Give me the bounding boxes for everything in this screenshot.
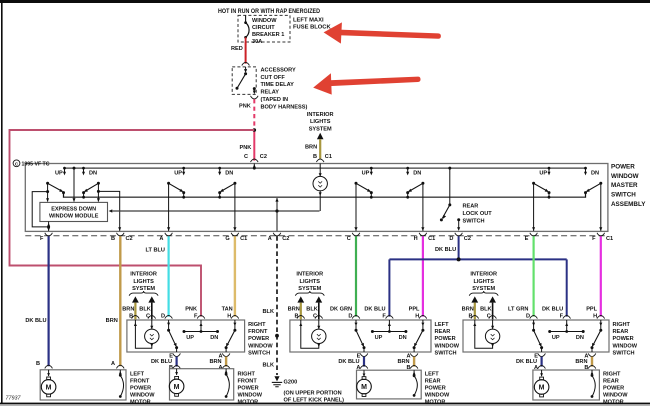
svg-text:F: F <box>560 314 564 320</box>
svg-text:MOTOR: MOTOR <box>603 399 624 405</box>
svg-text:PNK: PNK <box>185 306 197 312</box>
wire DK GRN pin C to left rear switch pin D <box>355 236 357 316</box>
svg-text:EXPRESS DOWN: EXPRESS DOWN <box>51 207 96 213</box>
svg-text:POWER: POWER <box>130 385 151 391</box>
svg-text:D: D <box>526 314 530 320</box>
switch illumination lamp <box>300 320 302 326</box>
svg-text:ASSEMBLY: ASSEMBLY <box>611 201 646 208</box>
svg-text:WINDOW: WINDOW <box>435 343 460 349</box>
fuse block dashed box <box>238 15 290 42</box>
svg-text:WINDOW MODULE: WINDOW MODULE <box>49 214 99 220</box>
switch output pin E to motor (DK BLU) <box>173 353 181 356</box>
svg-text:WINDOW: WINDOW <box>425 392 450 398</box>
svg-text:MOTOR: MOTOR <box>238 399 259 405</box>
master switch bottom pin F C1 <box>597 233 605 236</box>
switch 3 left arm <box>355 182 358 185</box>
ground bus wire inside master switch <box>64 192 586 197</box>
svg-text:SYSTEM: SYSTEM <box>309 126 332 132</box>
svg-text:A: A <box>159 236 163 242</box>
svg-text:LEFT: LEFT <box>435 322 450 328</box>
motor return path arc <box>413 370 415 375</box>
svg-text:DK BLU: DK BLU <box>25 318 46 324</box>
motor return path arc <box>225 369 227 374</box>
svg-text:WINDOW: WINDOW <box>238 392 263 398</box>
svg-text:CIRCUIT: CIRCUIT <box>252 25 275 31</box>
svg-text:WINDOW: WINDOW <box>603 392 628 398</box>
svg-text:MOTOR: MOTOR <box>425 399 446 405</box>
svg-text:M: M <box>539 385 545 392</box>
master switch bottom pin A C2 <box>273 233 281 236</box>
svg-text:LIGHTS: LIGHTS <box>473 279 494 285</box>
svg-text:1995 VF TC: 1995 VF TC <box>22 162 50 168</box>
switch 2 left pivot wire to pin A <box>168 183 170 231</box>
svg-text:A: A <box>111 361 115 367</box>
accessory cut off time delay relay dashed box <box>232 67 256 95</box>
svg-text:BREAKER 1: BREAKER 1 <box>252 32 284 38</box>
svg-text:BRN: BRN <box>122 306 134 312</box>
svg-text:LOCK OUT: LOCK OUT <box>463 211 493 217</box>
svg-text:INTERIOR: INTERIOR <box>130 272 157 278</box>
svg-text:DN: DN <box>89 171 97 177</box>
wire DK BLU drop to right rear switch pin F <box>566 259 568 316</box>
svg-text:C1: C1 <box>428 236 435 242</box>
arrow to interior lights system (BRN B C1) <box>317 133 324 139</box>
svg-text:C2: C2 <box>464 236 471 242</box>
svg-text:WINDOW: WINDOW <box>613 343 638 349</box>
switch 1 left arm <box>46 182 49 185</box>
switch output pin E to motor (DK BLU) <box>538 353 546 356</box>
pin A C2 ground riser <box>276 198 278 231</box>
svg-text:H: H <box>227 314 231 320</box>
wire BRN pin B C2 to left front motor <box>119 236 121 366</box>
svg-text:DN: DN <box>591 171 599 177</box>
wire PNK junction to master switch pin C C2 <box>253 130 255 161</box>
svg-text:RIGHT: RIGHT <box>248 322 266 328</box>
splice junction on PNK feed <box>253 128 257 132</box>
motor symbol <box>541 370 543 376</box>
master switch: left rear window switch UP contact <box>370 168 372 173</box>
svg-text:BODY HARNESS): BODY HARNESS) <box>261 104 308 110</box>
motor symbol <box>48 370 50 376</box>
switch illumination lamp <box>474 320 476 326</box>
svg-text:M: M <box>174 384 180 391</box>
wire PPL pin F C1 to right rear switch pin H <box>600 236 602 316</box>
svg-text:B: B <box>111 236 115 242</box>
switch left arm (to motor) <box>355 320 357 330</box>
svg-text:WINDOW: WINDOW <box>611 173 639 180</box>
lamp ground drop to module sense line <box>319 191 321 211</box>
switch feed and UP/DN contacts <box>566 320 568 332</box>
svg-text:WINDOW: WINDOW <box>252 18 277 24</box>
right rear power window switch box <box>463 320 609 352</box>
copyright 1995 VF TC <box>13 160 20 167</box>
ground G200 symbol <box>274 376 279 381</box>
master switch: right rear window switch UP contact <box>548 168 550 173</box>
wire LT BLU pin A to right front switch pin D <box>168 236 170 316</box>
master switch: right rear window switch DN contact <box>585 168 587 173</box>
svg-text:C: C <box>244 154 248 160</box>
switch 3 right arm <box>421 182 424 185</box>
wire PNK feed run to right front switch (left loop) <box>10 130 255 317</box>
switch left arm (to motor) <box>168 320 170 330</box>
svg-text:H: H <box>415 314 419 320</box>
master switch: left rear window switch DN contact <box>407 168 409 173</box>
red arrow pointer 2 <box>313 73 420 94</box>
svg-text:PNK: PNK <box>240 145 252 151</box>
svg-text:FRONT: FRONT <box>248 329 268 335</box>
svg-text:INTERIOR: INTERIOR <box>296 272 323 278</box>
svg-text:PPL: PPL <box>586 306 597 312</box>
svg-text:POWER: POWER <box>248 336 269 342</box>
wire DK BLU pin F to left front motor <box>47 236 49 366</box>
svg-text:REAR: REAR <box>603 378 619 384</box>
svg-text:M: M <box>361 384 367 391</box>
svg-text:B: B <box>36 361 40 367</box>
svg-text:UP: UP <box>174 171 182 177</box>
svg-text:E: E <box>525 236 529 242</box>
svg-text:SWITCH: SWITCH <box>463 218 485 224</box>
switch 1 center feed drop to express module <box>73 167 76 170</box>
svg-text:TIME DELAY: TIME DELAY <box>261 82 295 88</box>
svg-text:F: F <box>194 314 198 320</box>
master switch: right front window switch UP contact <box>183 168 185 173</box>
svg-text:INTERIOR: INTERIOR <box>307 112 334 118</box>
svg-text:LT GRN: LT GRN <box>508 306 528 312</box>
svg-text:HOT IN RUN OR WITH RAP ENERGIZ: HOT IN RUN OR WITH RAP ENERGIZED <box>218 8 321 15</box>
svg-text:BRN: BRN <box>462 306 474 312</box>
power window master switch assembly box <box>25 164 608 232</box>
feed bus wire (PNK supply inside master switch) <box>65 167 586 169</box>
switch output pin A to motor (BRN) <box>410 353 418 356</box>
left rear power window motor box <box>357 370 422 399</box>
svg-text:SWITCH: SWITCH <box>611 192 636 199</box>
svg-text:C: C <box>347 236 351 242</box>
svg-text:BLK: BLK <box>480 306 492 312</box>
svg-text:BLK: BLK <box>263 363 275 369</box>
svg-text:DK BLU: DK BLU <box>542 306 563 312</box>
switch output pin A to motor (BRN) <box>222 353 230 356</box>
motor symbol <box>176 369 178 375</box>
switch 2 right arm <box>233 182 236 185</box>
motor return path arc <box>119 370 121 375</box>
switch output pin A to motor (BRN) <box>588 353 596 356</box>
svg-text:DN: DN <box>210 335 218 341</box>
red arrow pointer 1 <box>324 22 441 43</box>
wire TAN pin G C1 to right front switch pin H <box>234 236 236 316</box>
switch 1 right arm <box>97 182 100 185</box>
svg-text:DN: DN <box>225 171 233 177</box>
master switch bottom pin G C1 <box>231 233 239 236</box>
svg-text:C2: C2 <box>282 236 289 242</box>
svg-text:30A: 30A <box>252 39 262 45</box>
svg-text:A: A <box>218 365 222 371</box>
svg-text:LIGHTS: LIGHTS <box>310 119 331 125</box>
wire PPL pin H C1 to left rear switch pin H <box>422 236 424 316</box>
switch right arm (to motor) <box>234 320 236 330</box>
svg-text:LEFT: LEFT <box>130 371 145 377</box>
svg-text:BRN: BRN <box>106 318 118 324</box>
svg-text:M: M <box>46 384 52 391</box>
switch right arm (to motor) <box>422 320 424 330</box>
svg-text:WINDOW: WINDOW <box>130 392 155 398</box>
svg-text:PNK: PNK <box>239 104 251 110</box>
wire DK BLU drop to left rear switch pin F <box>388 259 390 316</box>
svg-text:POWER: POWER <box>603 385 624 391</box>
svg-text:MOTOR: MOTOR <box>130 399 151 405</box>
svg-text:DK BLU: DK BLU <box>435 247 456 253</box>
wire DK BLU pin D C2 to rear switches feed <box>458 236 460 259</box>
svg-text:UP: UP <box>362 171 370 177</box>
svg-text:UP: UP <box>539 171 547 177</box>
illumination lamp in master switch <box>319 164 321 177</box>
connector C1/C2 dashed line <box>25 235 608 237</box>
svg-text:DK BLU: DK BLU <box>364 306 385 312</box>
svg-text:LEFT: LEFT <box>425 371 440 377</box>
svg-text:RED: RED <box>231 46 243 52</box>
branch from switch 1 right pivot to pin B C2 <box>98 191 119 231</box>
switch 1 right pivot wire into express module <box>97 183 99 201</box>
svg-text:BLK: BLK <box>306 306 318 312</box>
motor symbol <box>363 370 365 376</box>
svg-text:H: H <box>414 236 418 242</box>
switch 3 right pivot wire to pin H C1 <box>422 183 424 231</box>
svg-text:F: F <box>40 236 44 242</box>
svg-text:SWITCH: SWITCH <box>613 350 635 356</box>
left rear power window switch box <box>290 320 431 352</box>
switch illumination lamp <box>134 320 136 326</box>
svg-text:CUT OFF: CUT OFF <box>261 75 286 81</box>
svg-text:BLK: BLK <box>263 309 275 315</box>
relay connector pin (bottom) <box>251 96 259 99</box>
svg-text:WINDOW: WINDOW <box>248 343 273 349</box>
master switch: left front window switch UP contact <box>64 168 66 173</box>
svg-text:SWITCH: SWITCH <box>248 350 270 356</box>
switch 4 left pivot wire to pin E <box>533 183 535 231</box>
svg-text:LT BLU: LT BLU <box>146 248 165 254</box>
svg-text:RELAY: RELAY <box>261 90 280 96</box>
wire DK BLU rear feed horizontal run <box>389 258 566 260</box>
master switch: right front window switch DN contact <box>219 168 221 173</box>
pin C C2 feed entry arrow <box>253 164 255 169</box>
svg-text:C1: C1 <box>240 236 247 242</box>
express down window module box <box>40 202 108 221</box>
svg-text:(TAPED IN: (TAPED IN <box>261 97 289 103</box>
switch 4 left arm <box>532 182 535 185</box>
svg-text:F: F <box>382 314 386 320</box>
svg-text:RIGHT: RIGHT <box>603 371 621 377</box>
switch 4 right pivot wire to pin F C1 <box>600 183 602 231</box>
circuit breaker 1 symbol <box>245 15 247 22</box>
switch feed and UP/DN contacts <box>200 320 202 332</box>
svg-text:POWER: POWER <box>611 164 635 171</box>
svg-text:REAR: REAR <box>613 329 629 335</box>
express module output wire to pin F <box>48 222 50 231</box>
master switch top pin B C1 <box>316 159 324 162</box>
master switch bottom pin C <box>352 233 360 236</box>
svg-text:FRONT: FRONT <box>238 378 258 384</box>
svg-text:OF LEFT KICK PANEL): OF LEFT KICK PANEL) <box>284 398 345 404</box>
svg-text:H: H <box>593 314 597 320</box>
right front power window switch box <box>127 320 245 352</box>
svg-text:UP: UP <box>375 335 383 341</box>
relay internal switch <box>244 69 247 73</box>
svg-text:TAN: TAN <box>222 306 233 312</box>
svg-text:SWITCH: SWITCH <box>435 350 457 356</box>
svg-text:D: D <box>161 314 165 320</box>
svg-text:DN: DN <box>399 335 407 341</box>
svg-text:POWER: POWER <box>435 336 456 342</box>
svg-text:REAR: REAR <box>435 329 451 335</box>
svg-text:UP: UP <box>552 335 560 341</box>
svg-text:REAR: REAR <box>463 204 479 210</box>
svg-text:POWER: POWER <box>613 336 634 342</box>
svg-text:ACCESSORY: ACCESSORY <box>261 67 296 73</box>
svg-text:F: F <box>592 236 596 242</box>
svg-text:G200: G200 <box>284 379 298 385</box>
svg-text:UP: UP <box>186 335 194 341</box>
svg-text:B: B <box>313 154 317 160</box>
svg-text:FUSE BLOCK: FUSE BLOCK <box>293 24 331 30</box>
master switch bottom pin H C1 <box>419 233 427 236</box>
switch 2 right pivot wire to pin G C1 <box>234 183 236 231</box>
master switch bottom pin E <box>530 233 538 236</box>
switch 3 left pivot wire to pin C <box>355 183 357 231</box>
svg-text:DN: DN <box>576 335 584 341</box>
svg-text:MASTER: MASTER <box>611 182 638 189</box>
switch right arm (to motor) <box>600 320 602 330</box>
rear lock out switch <box>448 167 451 170</box>
switch 4 right arm <box>599 182 602 185</box>
svg-text:UP: UP <box>55 171 63 177</box>
svg-text:77937: 77937 <box>6 395 22 401</box>
svg-text:BRN: BRN <box>305 145 317 151</box>
svg-text:(ON UPPER PORTION: (ON UPPER PORTION <box>284 391 342 397</box>
master switch bottom pin F <box>45 233 53 236</box>
svg-text:LEFT MAXI: LEFT MAXI <box>293 17 324 23</box>
master switch: left front window switch DN contact <box>83 168 85 173</box>
svg-text:POWER: POWER <box>238 385 259 391</box>
svg-text:LIGHTS: LIGHTS <box>133 279 154 285</box>
switch output pin E to motor (DK BLU) <box>360 353 368 356</box>
svg-text:C2: C2 <box>126 236 133 242</box>
svg-text:C2: C2 <box>260 154 267 160</box>
svg-text:RIGHT: RIGHT <box>613 322 631 328</box>
wire BLK pin A C2 to ground G200 (dashed) <box>276 236 278 375</box>
switch 1 left pivot wire into express module <box>47 183 49 201</box>
relay connector pin (top) <box>242 62 250 65</box>
svg-text:C1: C1 <box>325 154 332 160</box>
switch 2 left arm <box>167 182 170 185</box>
svg-text:RIGHT: RIGHT <box>238 371 256 377</box>
svg-text:C1: C1 <box>606 236 613 242</box>
svg-text:PPL: PPL <box>409 306 420 312</box>
svg-text:REAR: REAR <box>425 378 441 384</box>
master switch top pin C C2 <box>251 159 259 162</box>
svg-text:FRONT: FRONT <box>130 378 150 384</box>
master switch bottom pin D C2 <box>455 233 463 236</box>
switch feed and UP/DN contacts <box>388 320 390 332</box>
svg-text:INTERIOR: INTERIOR <box>470 272 497 278</box>
svg-text:LIGHTS: LIGHTS <box>300 279 321 285</box>
right front power window motor box <box>170 369 234 400</box>
svg-text:POWER: POWER <box>425 385 446 391</box>
svg-text:D: D <box>348 314 352 320</box>
svg-text:BRN: BRN <box>288 306 300 312</box>
master switch bottom pin B C2 <box>117 233 125 236</box>
express module bypass loop (left) to pin F <box>32 192 48 227</box>
svg-text:G: G <box>225 236 229 242</box>
left front power window motor box <box>40 370 126 400</box>
svg-text:D: D <box>449 236 453 242</box>
motor return path arc <box>591 370 593 375</box>
svg-text:BLK: BLK <box>139 306 151 312</box>
wire LT GRN pin E to right rear switch pin D <box>532 236 534 316</box>
right rear power window motor box <box>533 370 600 400</box>
express module sense line from lamp/ground node <box>112 210 319 212</box>
svg-text:DN: DN <box>413 171 421 177</box>
svg-text:A: A <box>268 236 272 242</box>
switch left arm (to motor) <box>533 320 535 330</box>
master switch bottom pin A <box>165 233 173 236</box>
svg-text:DK GRN: DK GRN <box>330 306 352 312</box>
